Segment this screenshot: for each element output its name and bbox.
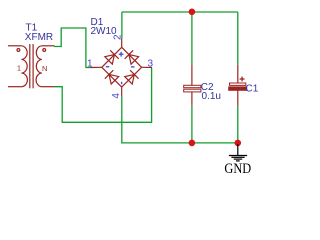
T1 core line left bbox=[29, 44, 31, 88]
svg-text:C1: C1 bbox=[246, 84, 259, 95]
D1 lead pin2 bbox=[121, 38, 123, 47]
D1 plus mark bbox=[119, 53, 124, 55]
D1 lead pin3 bbox=[142, 66, 152, 68]
svg-text:4: 4 bbox=[111, 93, 122, 99]
wire: T1 primary bottom lead bbox=[8, 86, 21, 88]
D1 minus mark right bbox=[131, 66, 135, 68]
C1 top lead bbox=[237, 65, 239, 83]
svg-text:2W10: 2W10 bbox=[91, 26, 118, 37]
D1 diode on bottom-left edge bbox=[105, 70, 119, 84]
svg-text:N: N bbox=[42, 64, 47, 73]
wire: T1 secondary bottom lead bbox=[42, 86, 54, 88]
svg-text:3: 3 bbox=[148, 58, 154, 69]
D1 lead pin1 bbox=[91, 66, 102, 68]
junction dot top bbox=[189, 9, 196, 16]
D1 diode on top-right edge bbox=[125, 50, 139, 64]
wire: C2 top drop bbox=[191, 12, 193, 65]
C2 top plate bbox=[184, 85, 201, 87]
svg-text:XFMR: XFMR bbox=[25, 32, 53, 43]
wire: C2 bottom drop bbox=[191, 106, 193, 143]
wire: T1 secondary top lead bbox=[42, 45, 55, 47]
D1 diamond edge top-right bbox=[122, 47, 142, 67]
junction dot bottom C2 bbox=[189, 140, 196, 147]
transformer T1 bbox=[8, 44, 55, 88]
capacitor C2 bbox=[184, 65, 201, 106]
ground symbol bbox=[229, 144, 247, 161]
C2 top lead bbox=[191, 65, 193, 86]
capacitor C1 bbox=[229, 65, 247, 106]
T1 secondary winding bbox=[36, 46, 42, 87]
T1 core line right bbox=[32, 44, 34, 88]
C2 bottom plate bbox=[184, 89, 201, 92]
wire: xfmr top to bridge pin1 staircase bbox=[54, 28, 91, 68]
T1 primary polarity dot bbox=[17, 49, 20, 52]
wire: top rail bbox=[122, 11, 238, 13]
ground bar 4 bbox=[236, 160, 240, 162]
C1 bottom plate bbox=[229, 87, 247, 90]
D1 diamond edge bottom-right bbox=[122, 67, 142, 87]
junction dot bottom C1 bbox=[235, 140, 242, 147]
svg-text:0.1u: 0.1u bbox=[202, 91, 221, 102]
D1 diamond edge top-left bbox=[102, 47, 122, 67]
C1 top plate bbox=[230, 83, 246, 85]
C2 bottom lead bbox=[191, 92, 193, 106]
D1 lead pin4 bbox=[121, 87, 123, 97]
ground bar 1 bbox=[229, 155, 247, 157]
C1 bottom lead bbox=[237, 90, 239, 105]
wire: xfmr bottom to bridge pin3 bbox=[54, 68, 152, 123]
bridge rectifier D1 bbox=[91, 38, 153, 96]
wire: bridge pin4 drop and bottom rail bbox=[122, 97, 238, 143]
wire: bridge pin2 riser bbox=[121, 12, 123, 38]
D1 diode on top-left edge bbox=[104, 50, 118, 64]
T1 secondary polarity dot bbox=[43, 49, 46, 52]
ground bar 2 bbox=[231, 156, 244, 158]
svg-text:GND: GND bbox=[224, 161, 251, 177]
wire: C1 top drop bbox=[237, 12, 239, 65]
D1 minus mark left bbox=[106, 66, 110, 68]
wire: C1 bottom drop bbox=[237, 106, 239, 143]
T1 primary winding bbox=[21, 46, 27, 87]
svg-text:1: 1 bbox=[17, 64, 21, 73]
ground bar 3 bbox=[234, 158, 242, 160]
ground stub bbox=[237, 144, 239, 155]
D1 diamond edge bottom-left bbox=[102, 67, 122, 87]
svg-text:1: 1 bbox=[87, 58, 93, 69]
D1 polarity marks bbox=[106, 52, 135, 85]
D1 diode on bottom-right edge bbox=[124, 70, 138, 84]
wires (green) bbox=[54, 12, 238, 143]
D1 minus mark bottom bbox=[121, 82, 123, 85]
wire: T1 primary top lead bbox=[8, 45, 21, 47]
C1 plus mark bbox=[240, 78, 245, 80]
